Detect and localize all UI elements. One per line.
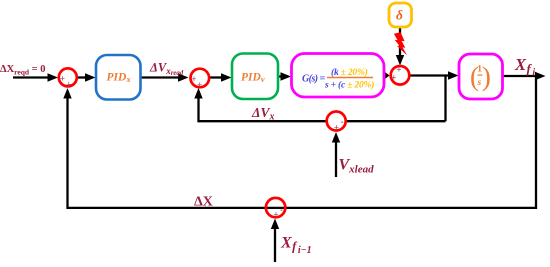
svg-text:+: + [66, 80, 71, 90]
svg-text:(k ± 20%): (k ± 20%) [331, 67, 368, 78]
svg-text:+: + [391, 73, 396, 83]
svg-text:G(s) =: G(s) = [302, 74, 326, 85]
svg-text:s + (c ± 20%): s + (c ± 20%) [324, 79, 374, 90]
svg-text:ΔX: ΔX [194, 195, 213, 210]
svg-text:-: - [341, 116, 344, 126]
svg-text:+: + [396, 65, 401, 75]
svg-text:-: - [280, 205, 283, 215]
svg-text:δ: δ [396, 7, 403, 22]
svg-text:PIDv: PIDv [241, 71, 265, 84]
svg-text:+: + [60, 73, 65, 83]
svg-text:PIDx: PIDx [107, 71, 132, 84]
svg-text:s: s [477, 78, 482, 88]
svg-text:+: + [273, 210, 278, 220]
svg-text:): ) [482, 61, 491, 91]
svg-text:+: + [197, 80, 202, 90]
svg-text:+: + [334, 123, 339, 133]
svg-text:1: 1 [477, 65, 482, 75]
svg-text:+: + [191, 74, 196, 84]
